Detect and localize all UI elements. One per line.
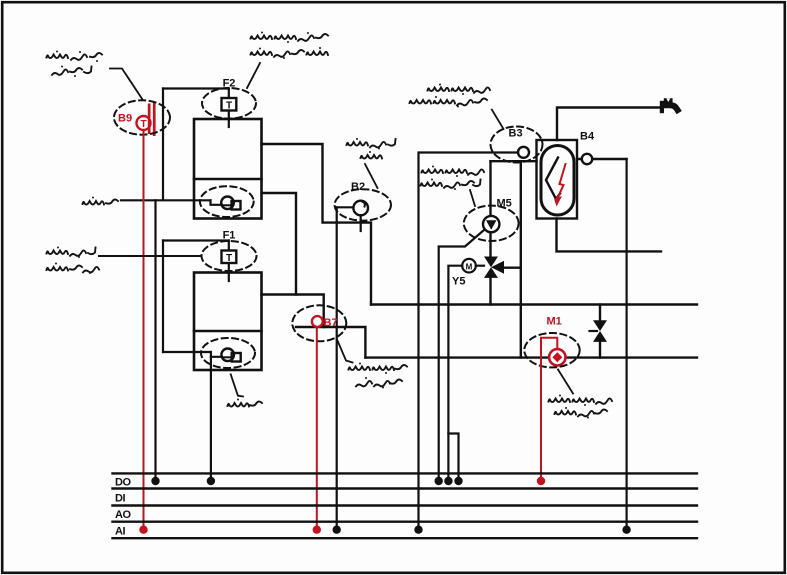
- label: outdoor temp sensor (Persian) line 1: [47, 51, 103, 63]
- wire: B2 signal down to AI: [336, 207, 338, 529]
- label: burner 2 (Persian): [83, 197, 119, 205]
- pipe: DHW supply to tank: [491, 160, 537, 162]
- wire: B9 sensor signal (red) down to AI: [143, 130, 145, 530]
- label: supply temp sensor B2 (Persian) line 1: [347, 138, 396, 150]
- svg-text:B4: B4: [580, 131, 595, 143]
- label: DHW supply sensor B3 (Persian) line 2: [410, 96, 488, 108]
- leader: B3 label: [492, 110, 504, 129]
- leader: M1 label: [558, 370, 573, 394]
- label: boiler 1 high-limit thermostat (Persian) line 1: [47, 247, 96, 259]
- three-way valve Y5: [452, 257, 504, 288]
- node: Y5 on DO bus: [444, 477, 452, 485]
- label: outdoor temp sensor (Persian) line 2: [52, 66, 92, 78]
- wire: burner 1 control down to DO: [210, 357, 212, 481]
- leader: F2 label to ellipse: [247, 63, 260, 88]
- thermostat F2 box: [222, 98, 237, 112]
- svg-text:B9: B9: [118, 113, 132, 125]
- pipe: return with B7 sensor: [296, 327, 365, 358]
- svg-text:B3: B3: [509, 128, 523, 140]
- tank coil zigzag: [546, 158, 560, 200]
- svg-text:B2: B2: [351, 181, 365, 193]
- node: M5 on DO bus: [435, 477, 443, 485]
- node: burner 2 on DO bus: [151, 477, 159, 485]
- pipe: tank bottom out: [557, 219, 662, 252]
- pipe: tank top to faucet: [557, 108, 660, 141]
- wire: Y5 motor control to DO: [448, 266, 462, 481]
- faucet symbol: [660, 98, 682, 114]
- pipe: M5 riser: [489, 161, 491, 216]
- dashed ellipse around F1: [202, 241, 257, 271]
- wire: F1 safety loop top: [163, 239, 229, 241]
- wire: B3 signal left then down to AI: [419, 153, 519, 530]
- leader: F1 label wire to ellipse: [99, 255, 201, 257]
- tank electric bolt (red): [554, 164, 566, 207]
- leader: burner 1 label: [231, 374, 243, 396]
- wire: jog branch to DO: [448, 434, 458, 482]
- DHW supply sensor B3: [509, 128, 530, 158]
- wire: F2 safety loop top: [163, 87, 229, 89]
- dashed ellipse around B2: [335, 189, 391, 220]
- leader: B9 label to ellipse: [110, 69, 143, 100]
- leader: B7 label: [337, 340, 353, 363]
- label: boiler 2 high-limit thermostat (Persian) line 2: [251, 47, 329, 59]
- label: return temp sensor B7 (Persian) line 1: [349, 363, 408, 375]
- wire: B7 signal (red) down to AI: [316, 327, 318, 530]
- node: B9 on AI bus (red dot): [139, 526, 147, 534]
- dashed ellipse around burner 2: [200, 186, 254, 217]
- svg-text:AO: AO: [115, 509, 131, 521]
- dashed ellipse around burner 1: [201, 338, 255, 368]
- pipe: valve Y5 down to supply header: [489, 278, 491, 305]
- valve motor M circle: [462, 259, 484, 273]
- node: M1 on DO bus (red dot): [537, 477, 545, 485]
- svg-text:T: T: [140, 119, 146, 130]
- dashed ellipse around B7: [292, 305, 346, 341]
- burner 1 symbol: [211, 349, 241, 362]
- svg-text:M1: M1: [547, 316, 562, 328]
- DHW return pump M1 (red): [547, 316, 566, 366]
- svg-text:T: T: [226, 101, 232, 112]
- pipe: tank right port with sensor circle: [577, 154, 627, 164]
- DHW pump M5: [483, 198, 512, 233]
- node: tank sensor on AI bus: [622, 526, 630, 534]
- svg-text:T: T: [226, 253, 232, 264]
- node: burner 1 on DO bus: [207, 477, 215, 485]
- dashed ellipse around F2: [202, 88, 256, 119]
- label: DHW supply sensor B3 (Persian) line 1: [428, 84, 491, 96]
- thermostat F1 box: [222, 251, 237, 265]
- I/O bus lines: [113, 473, 698, 538]
- label: return temp sensor B7 (Persian) line 2: [356, 377, 402, 389]
- wire: M1 control (red) to DO: [541, 338, 557, 481]
- boiler 1 body: [194, 273, 262, 371]
- node: B2 on AI bus: [333, 526, 341, 534]
- outdoor sensor B9 (red): [118, 102, 156, 137]
- supply sensor B2: [337, 181, 368, 231]
- pipe: valve Y5 right branch: [504, 267, 521, 269]
- label: DHW supply pump M5 (Persian) line 2: [421, 179, 481, 191]
- check valve: [590, 320, 608, 342]
- pipe: boiler 2 burner-section return: [262, 193, 297, 295]
- dashed ellipse around B9: [114, 100, 170, 134]
- leader: B2 label to ellipse: [365, 164, 378, 188]
- wire: burner 2 feed horizontal: [121, 199, 211, 201]
- label: boiler 2 high-limit thermostat (Persian) line 1: [251, 32, 329, 44]
- wire: F1 safety loop left: [162, 241, 164, 353]
- boiler 2 body: [194, 119, 262, 219]
- label: DHW supply pump M5 (Persian) line 1: [422, 166, 485, 178]
- node: B3 on AI bus: [414, 526, 422, 534]
- wire: M5 pump control to DO: [439, 230, 485, 482]
- svg-text:DI: DI: [115, 493, 125, 505]
- svg-text:DO: DO: [115, 477, 131, 489]
- label: boiler 1 high-limit thermostat (Persian) line 2: [47, 263, 100, 275]
- wire: F1 loop to burner 1: [163, 351, 211, 353]
- pipe: boiler 1 supply out: [262, 295, 324, 328]
- node: jog branch on DO bus: [454, 477, 462, 485]
- svg-text:B7: B7: [324, 317, 338, 329]
- wire: F2 safety loop left: [162, 89, 164, 200]
- svg-text:AI: AI: [115, 526, 125, 538]
- label: burner 1 (Persian): [228, 399, 263, 407]
- dashed ellipse around B3: [491, 127, 543, 163]
- pipe: tank bypass riser down to return header: [520, 161, 522, 357]
- thermostat F2 stem wire: [228, 89, 230, 128]
- pipe: M5 to valve Y5: [489, 232, 491, 256]
- leader: M5 label: [470, 190, 475, 206]
- label: DHW return pump M1 (Persian) line 2: [555, 407, 608, 419]
- label: DHW return pump M1 (Persian) line 1: [549, 395, 613, 407]
- pipe: check valve drop: [599, 305, 601, 358]
- DHW tank B4 inner vessel: [541, 146, 574, 216]
- wire: burner 2 control down to DO: [154, 200, 156, 481]
- label: supply temp sensor B2 (Persian) line 2: [361, 151, 383, 159]
- node: B7 on AI bus (red dot): [313, 526, 321, 534]
- DHW tank B4 outer box: [537, 140, 578, 219]
- return sensor B7 (red): [312, 316, 338, 329]
- return header: [365, 356, 697, 358]
- dashed ellipse around M1: [524, 333, 579, 367]
- pipe: boiler 2 supply out: [262, 144, 372, 305]
- burner 2 symbol: [211, 197, 241, 210]
- svg-text:M: M: [466, 263, 473, 272]
- dashed ellipse around M5: [464, 206, 519, 241]
- supply header: [371, 303, 697, 305]
- wire: tank sensor down to AI: [625, 159, 627, 530]
- svg-text:Y5: Y5: [452, 276, 465, 288]
- thermostat F1 stem wire: [228, 241, 230, 282]
